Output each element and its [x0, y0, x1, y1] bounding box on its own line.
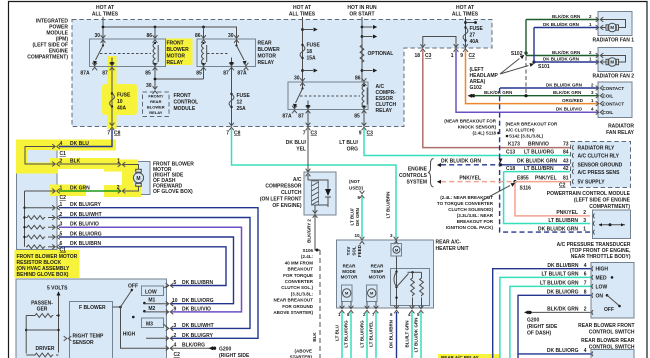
wire pivot down to blk/org row: [121, 307, 169, 348]
junction dk blu/dk grn + arrow: [499, 163, 502, 166]
wire DK BLU fuse10 to C1-4: [59, 129, 112, 147]
svg-text:RADIATOR FAN 1: RADIATOR FAN 1: [593, 38, 635, 44]
wire relay1 86 drop: [154, 27, 156, 39]
wire LT BLU/DK GRN heater pin5: [420, 312, 422, 358]
engine controls system brace: [428, 159, 434, 188]
svg-text:PNK/YEL: PNK/YEL: [459, 176, 481, 182]
arrow pnk/yel engine controls: [437, 180, 441, 184]
relay K1 switch: [102, 39, 104, 46]
yellow highlight motor pins: [104, 160, 138, 172]
ground G102: [468, 94, 476, 98]
svg-text:BLK: BLK: [70, 159, 81, 165]
relay K1 front blower motor relay box: [90, 39, 166, 67]
svg-text:1: 1: [60, 186, 63, 192]
svg-text:OFF: OFF: [604, 307, 614, 313]
wire DK BLU/DK GRN contact coil 2: [500, 87, 598, 89]
wire BLK/DK GRN ground to contact coil 3: [474, 95, 599, 97]
fuse F18 15A: [300, 44, 305, 59]
wire PNK/YEL down to transducer 2: [515, 182, 590, 216]
connector C8 pin 7 (fuse12): [229, 123, 234, 131]
wire BLK/GRY 2 down to S106: [315, 216, 320, 250]
heater switch sub box: [391, 269, 430, 306]
svg-text:SOL: SOL: [352, 246, 357, 256]
svg-text:10: 10: [354, 233, 360, 238]
radiator fan 1 box: [598, 12, 632, 36]
radiator fan relay contact coil box: [598, 82, 632, 118]
wire ORG/RED from C2-9 to contact coil 1: [466, 51, 599, 104]
radiator fan 2 box: [598, 48, 632, 72]
wire LT BLU/BRN from C8-7 to heater pin 3: [232, 129, 397, 238]
fuse F12 25A: [229, 93, 234, 108]
wire LT BLU/ORG from C3-9 to PCM 84: [364, 129, 570, 156]
wire BLU/LT GRN heater pin4: [411, 312, 413, 358]
svg-text:DK BLU/BRN: DK BLU/BRN: [389, 320, 394, 348]
wire K3-85 to C3 pin9: [363, 110, 365, 127]
wire BRN/VIO from C3-18 to PCM 73: [423, 51, 570, 148]
svg-text:M: M: [610, 25, 614, 30]
wire PNK/YEL dashed to S116: [441, 181, 515, 183]
yellow highlight dk blu wire row: [52, 140, 116, 151]
clutch coil: [308, 175, 315, 180]
svg-text:LT BLU/ORG: LT BLU/ORG: [344, 320, 349, 348]
splice S102: [524, 51, 527, 54]
wire relay2 86 drop: [203, 27, 205, 39]
svg-text:S101: S101: [538, 64, 550, 70]
ground G200 (right side of dash): [209, 346, 217, 350]
heater resistors: [411, 277, 415, 296]
wire feed C optional resistor: [361, 17, 363, 82]
wire LT BLU heater pin1: [341, 312, 343, 358]
front blower motor M1 box: [123, 162, 150, 195]
svg-text:OPTIONAL: OPTIONAL: [368, 51, 394, 57]
svg-text:C2: C2: [559, 183, 566, 189]
resistor R3: [26, 235, 45, 239]
svg-text:M: M: [136, 176, 140, 182]
svg-text:LT BLU/: LT BLU/: [350, 208, 355, 226]
relay K1 coil: [153, 42, 158, 65]
wire dashed to ground junction: [525, 57, 527, 96]
svg-text:5 VOLTS: 5 VOLTS: [47, 286, 68, 292]
svg-text:C1: C1: [60, 151, 67, 157]
yellow highlight blk wire row: [50, 158, 120, 169]
connector C3 pin 7: [306, 123, 311, 131]
fuse F27 40A: [465, 17, 467, 48]
wire DK BLU/DK GRN dashed down to transducer: [500, 88, 590, 232]
M3 box: [132, 316, 135, 319]
wire PNK/YEL solid to PCM 81: [515, 181, 570, 183]
LOW box: [142, 286, 164, 296]
relay K3 a/c compressor clutch relay box: [288, 82, 368, 110]
svg-text:C8: C8: [234, 131, 241, 137]
wire DK BLU/ORG on: [518, 295, 591, 358]
a/c pressure transducer box: [593, 210, 631, 239]
wire BLK to front blower motor: [59, 163, 121, 165]
wire K3-87 to C3 pin7: [307, 110, 309, 127]
svg-text:LT BLU/DK GRN: LT BLU/DK GRN: [414, 318, 419, 353]
ground G200 right side of dash: [524, 310, 532, 314]
a/c compressor clutch box: [304, 172, 336, 215]
splice S106: [316, 249, 319, 252]
yellow highlight fuse10 wire: [108, 56, 117, 86]
svg-text:30: 30: [146, 83, 152, 89]
rear blower front control switch box: [591, 263, 634, 319]
f blower box: [70, 302, 113, 358]
resistor driver: [26, 354, 34, 356]
M2 row: [143, 310, 146, 313]
txv solenoid motor: [396, 240, 398, 244]
blower switch assembly box: [16, 279, 167, 358]
heater bottom pins: [340, 306, 345, 314]
wire DK BLU/DK GRN dashed to PCM 43: [441, 164, 500, 166]
fuse F12 wire: [231, 67, 233, 127]
svg-text:C3: C3: [425, 53, 432, 59]
rear blower rear control switch box: [591, 350, 634, 358]
wire DK BLU/WHT nested: [59, 218, 250, 329]
yellow highlight dk grn row: [50, 185, 86, 197]
yellow highlight jumper C-shape: [16, 140, 58, 151]
svg-text:S116: S116: [520, 186, 532, 192]
resistor R1: [26, 216, 45, 220]
svg-text:M: M: [610, 60, 614, 65]
relay K1 actuation dashes: [100, 53, 151, 55]
resistor R2: [26, 225, 45, 229]
svg-text:9: 9: [460, 53, 463, 59]
arrow dk blu/dk grn engine controls: [437, 163, 441, 167]
resistor block internals: [25, 191, 56, 247]
svg-text:DK BLU: DK BLU: [70, 141, 89, 147]
svg-text:7: 7: [303, 131, 306, 137]
svg-text:7: 7: [107, 131, 110, 137]
wire BLK dashed below S106: [319, 250, 321, 358]
resistor passenger: [26, 315, 34, 317]
PCM powertrain control module dashed box: [571, 142, 631, 188]
svg-text:DRIVER: DRIVER: [36, 346, 55, 352]
wire DK BLU/GRY nested: [59, 208, 258, 339]
rear a/c heater unit box: [337, 240, 434, 308]
svg-text:C1: C1: [60, 248, 67, 254]
wire DK BLU/DK GRN to radiator fans: [534, 28, 598, 63]
connector C3 pin 18: [420, 44, 425, 52]
pointer arrows to splices: [500, 59, 529, 75]
gray bracket C3-18 to C2-1: [423, 37, 456, 49]
clutch diode: [315, 180, 328, 207]
svg-text:C2: C2: [60, 195, 67, 201]
resistor R4: [26, 245, 45, 249]
wire 5v vertical: [57, 291, 61, 295]
svg-text:1: 1: [117, 159, 120, 165]
yellow highlight resistor block label: [15, 250, 80, 278]
svg-text:C8: C8: [114, 131, 121, 137]
connector C8 pin 7 (fuse10): [110, 123, 115, 131]
svg-text:18: 18: [414, 53, 420, 59]
wire feed A down to relay rail: [102, 17, 104, 39]
wire DK BLU/ORG nested: [59, 237, 234, 304]
yellow highlight front blower motor relay label: [165, 39, 193, 66]
resistor optional: [360, 44, 364, 63]
splice S116: [513, 180, 516, 183]
svg-text:HOT IN RUNOR START: HOT IN RUNOR START: [347, 5, 377, 18]
svg-text:DK GRN: DK GRN: [355, 208, 360, 226]
svg-text:BLK/DK GRN: BLK/DK GRN: [484, 90, 512, 95]
wire DK BLU/BRN high: [493, 269, 591, 358]
wire LT BLU/BRN PCM 42 to transducer 3: [504, 172, 590, 224]
M1 row: [143, 302, 146, 305]
wire LT BLU/LT GRN med: [500, 277, 591, 358]
wire f blower to switch pivot: [113, 306, 121, 308]
svg-text:LOW: LOW: [145, 290, 157, 296]
bus rail wire top: [103, 27, 237, 39]
svg-text:C2: C2: [469, 53, 476, 59]
wire BLK/ORG to ground: [171, 347, 213, 349]
relay K2 coil: [202, 42, 207, 65]
wire DK BLU/BRN nested: [59, 247, 226, 286]
svg-text:RADIATOR FAN 2: RADIATOR FAN 2: [593, 74, 635, 80]
svg-text:HIGH: HIGH: [123, 332, 136, 338]
svg-text:LT BLU/YEL: LT BLU/YEL: [369, 321, 374, 347]
svg-text:BLU/LT GRN: BLU/LT GRN: [405, 321, 410, 348]
svg-text:9: 9: [359, 131, 362, 137]
svg-text:2: 2: [60, 159, 63, 165]
left bus wire: [25, 316, 27, 354]
wire DK BLU/VIO nested: [59, 227, 242, 312]
svg-text:C2: C2: [174, 352, 181, 358]
svg-text:1: 1: [451, 53, 454, 59]
connector C2 bottom pins: [166, 283, 174, 288]
wire DK BLU/VIO from C2-1 to contact coil 4: [456, 51, 598, 113]
relay K3 switch: [302, 82, 304, 89]
svg-text:M3: M3: [146, 322, 153, 328]
svg-text:BLK: BLK: [312, 332, 317, 342]
blower switch lever to OFF: [121, 291, 132, 308]
wire relay1-85 to relay2-85 junction: [155, 67, 204, 89]
svg-text:LT BLU/BRN: LT BLU/BRN: [386, 192, 391, 219]
svg-text:M2: M2: [148, 306, 155, 312]
wire BLK/DK GRN to radiator fans: [526, 20, 598, 56]
wire LT BLU/ORG heater pin2: [366, 312, 368, 358]
svg-text:FRONT/REARBLOWERRELAY: FRONT/REARBLOWERRELAY: [147, 94, 165, 116]
svg-text:4: 4: [60, 141, 63, 147]
wire DK BLU/ORG rear switch: [518, 353, 591, 355]
svg-text:2: 2: [117, 185, 120, 191]
svg-text:FEED: FEED: [357, 244, 362, 257]
wire feed B fuse18: [302, 17, 304, 82]
svg-text:F BLOWER: F BLOWER: [79, 305, 106, 311]
wire LT BLU/ORG heater pin8: [350, 312, 352, 358]
wire DK GRN to front blower motor: [59, 190, 121, 192]
svg-text:LT BLU: LT BLU: [335, 325, 340, 341]
svg-text:DK GRN: DK GRN: [70, 186, 90, 192]
wire DK BLU/YEL from C3-7 to clutch: [307, 129, 309, 172]
wire LT BLU/DK GRN stub to heater pin 10: [361, 197, 363, 238]
front/rear blower relay dashed box: [143, 92, 170, 117]
svg-text:RADIATORFAN RELAY: RADIATORFAN RELAY: [606, 124, 635, 137]
fuse F10 wire: [111, 67, 113, 127]
jumper wire C1-4 to C1-2: [25, 147, 55, 165]
connector C2 pins 1 and 9: [454, 44, 459, 52]
pointer line to S116: [482, 186, 510, 201]
relay K3 coil: [362, 84, 367, 107]
IPM integrated power module dashed box: [72, 20, 492, 127]
svg-text:LT BLU/ORG: LT BLU/ORG: [360, 320, 365, 348]
wire LT BLU/YEL heater pin7: [375, 312, 377, 358]
wire LT BLU/DK GRN low: [510, 286, 591, 358]
svg-text:OFF: OFF: [128, 284, 138, 290]
wire DK BLU/BRN heater pin6: [396, 312, 398, 358]
relay K2 rear blower motor relay box: [197, 39, 256, 67]
fuse F10 40A: [110, 92, 115, 107]
front blower motor internals: [123, 165, 139, 192]
splice S101: [532, 60, 535, 63]
svg-text:DK BLU/DK GRN: DK BLU/DK GRN: [441, 159, 481, 165]
relay K2 switch: [236, 39, 238, 46]
connector C1 resistor block pins: [52, 205, 60, 210]
svg-text:C3: C3: [367, 131, 374, 137]
connector C3 pin 9: [362, 123, 367, 131]
svg-text:BLK/GRY 2: BLK/GRY 2: [307, 219, 312, 243]
yellow highlight bottom note: [438, 354, 500, 358]
svg-text:7: 7: [226, 131, 229, 137]
front blower resistor block box: [17, 141, 58, 250]
svg-text:TXV: TXV: [346, 247, 351, 256]
svg-text:M1: M1: [148, 298, 155, 304]
svg-text:REAR BLOWER REARCONTROL SWITCH: REAR BLOWER REARCONTROL SWITCH: [581, 338, 635, 351]
svg-text:C3: C3: [311, 131, 318, 137]
